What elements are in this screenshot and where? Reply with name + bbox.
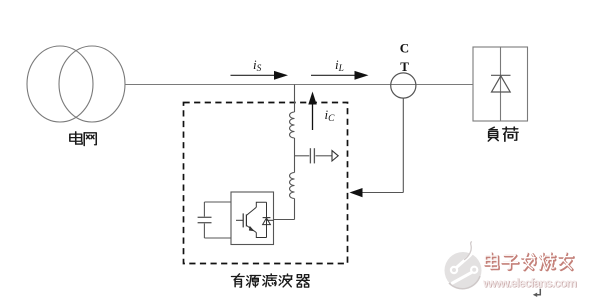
svg-text:T: T	[400, 59, 409, 74]
svg-text:www.elecfans.com: www.elecfans.com	[482, 276, 577, 290]
svg-text:C: C	[400, 41, 409, 56]
